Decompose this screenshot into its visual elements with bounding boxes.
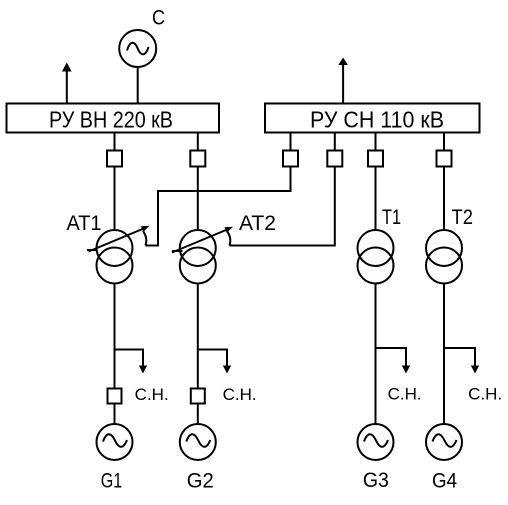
tap-changer arrow AT2 [172, 227, 233, 253]
auxiliary tap G4 [444, 348, 479, 374]
breaker T2 [437, 151, 452, 167]
svg-text:G1: G1 [101, 469, 123, 493]
wire 110kV bus to AT2 MV [230, 133, 335, 246]
wire T2 to G4 [443, 284, 445, 425]
wire AT1 to G1 [114, 284, 116, 424]
transformer T1 [358, 230, 394, 284]
breaker AT2 MV [327, 151, 342, 167]
svg-text:Т2: Т2 [452, 206, 474, 229]
breaker G2 [191, 389, 205, 404]
svg-text:АТ1: АТ1 [67, 212, 102, 235]
outgoing line arrow on 110kV bus [338, 58, 348, 104]
tap connection curve AT2 [227, 231, 230, 246]
wire 110kV bus to T2 [443, 133, 445, 230]
autotransformer AT2 [180, 230, 216, 284]
svg-text:Т1: Т1 [382, 206, 401, 229]
wire T1 to G3 [375, 284, 377, 425]
breaker AT1 HV [107, 151, 122, 167]
generator G3 [358, 424, 394, 460]
generator G4 [426, 424, 462, 460]
source C [119, 30, 156, 67]
wire 220kV bus to AT2 [197, 133, 199, 231]
transformer T2 [426, 230, 462, 284]
auxiliary tap G2 [198, 350, 231, 374]
generator G2 [180, 424, 216, 460]
wire AT2 to G2 [197, 284, 199, 424]
svg-text:G2: G2 [187, 469, 214, 493]
svg-text:С.Н.: С.Н. [135, 386, 169, 404]
bus РУ СН 110 кВ [265, 104, 480, 133]
tap-changer arrow AT1 [87, 226, 150, 252]
autotransformer AT1 [97, 230, 133, 284]
svg-text:G4: G4 [432, 469, 457, 493]
breaker AT2 HV [190, 151, 205, 167]
svg-text:С.Н.: С.Н. [468, 386, 502, 404]
breaker G1 [108, 389, 122, 404]
wire 110kV bus to AT1 MV [146, 133, 291, 246]
breaker AT1 MV [283, 151, 298, 167]
svg-text:С.Н.: С.Н. [223, 386, 257, 404]
auxiliary tap G1 [115, 350, 148, 374]
wire C to 220kV bus [137, 67, 139, 104]
svg-text:С.Н.: С.Н. [388, 386, 422, 404]
svg-text:С: С [152, 7, 165, 30]
outgoing line arrow on 220kV bus [62, 63, 72, 104]
generator G1 [97, 424, 133, 460]
tap connection curve AT1 [143, 231, 146, 246]
svg-text:G3: G3 [363, 468, 389, 492]
wire 110kV bus to T1 [375, 133, 377, 230]
breaker T1 [368, 151, 383, 167]
svg-text:АТ2: АТ2 [239, 212, 276, 235]
wire 220kV bus to AT1 [114, 133, 116, 231]
bus РУ ВН 220 кВ [7, 104, 220, 133]
svg-text:РУ ВН 220 кВ: РУ ВН 220 кВ [49, 107, 173, 133]
svg-text:РУ СН 110 кВ: РУ СН 110 кВ [310, 107, 444, 133]
auxiliary tap G3 [376, 348, 411, 374]
